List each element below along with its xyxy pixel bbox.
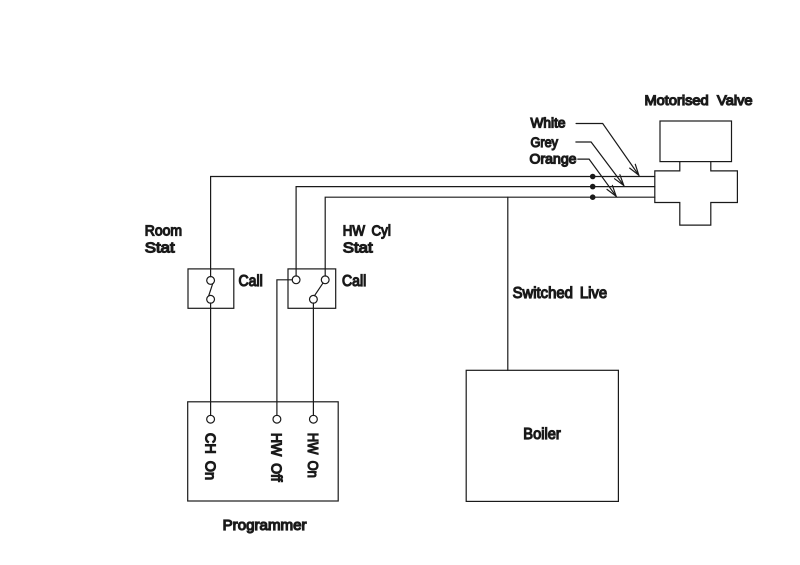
motorised valve body (cross) [655,162,738,226]
wire white: horizontal run to valve [211,177,655,277]
svg-text:White: White [531,116,566,131]
svg-text:Orange: Orange [530,152,577,167]
programmer terminal CH On [207,415,215,423]
svg-text:Boiler: Boiler [523,426,561,443]
leader line orange [578,159,616,196]
boiler box [466,370,618,501]
hw stat contact right [321,276,329,284]
hw cyl stat box [288,269,336,308]
svg-text:HW Off: HW Off [268,433,284,483]
svg-text:CH On: CH On [201,433,217,480]
node white junction [590,174,596,180]
svg-text:Stat: Stat [145,241,175,257]
wire grey: horizontal run to valve [296,187,655,277]
svg-text:Call: Call [239,273,263,290]
motorised valve actuator box [660,121,732,162]
svg-text:HW On: HW On [304,433,320,478]
arrowhead white [630,164,639,175]
node orange junction [590,194,596,200]
hw stat switch lever [314,283,323,296]
hw stat contact bottom [310,295,318,303]
leader line white [576,124,639,176]
svg-text:Stat: Stat [343,241,373,257]
room stat switch lever [209,284,213,296]
wire switched live [507,197,509,370]
room stat contact top [207,277,215,285]
svg-text:HW Cyl: HW Cyl [343,224,391,240]
leader line grey [576,142,624,186]
programmer terminal HW Off [273,415,281,423]
wire hw stat left contact to programmer HW Off [277,280,293,416]
room stat contact bottom [207,295,215,303]
arrowhead orange [607,185,616,196]
wire orange: horizontal run to valve [325,197,655,276]
programmer terminal HW On [310,415,318,423]
svg-text:Grey: Grey [531,135,559,150]
programmer box [188,402,339,501]
svg-text:Room: Room [145,224,182,240]
svg-text:Call: Call [342,273,366,290]
wire room stat to programmer CH On [210,303,212,416]
svg-text:Motorised Valve: Motorised Valve [645,93,753,108]
node grey junction [590,184,596,190]
arrowhead grey [615,175,624,186]
svg-text:Switched Live: Switched Live [513,285,608,302]
hw stat contact left [292,276,300,284]
room stat box [188,269,234,308]
wire hw stat bottom contact to programmer HW On [312,303,314,416]
svg-text:Programmer: Programmer [223,518,307,534]
